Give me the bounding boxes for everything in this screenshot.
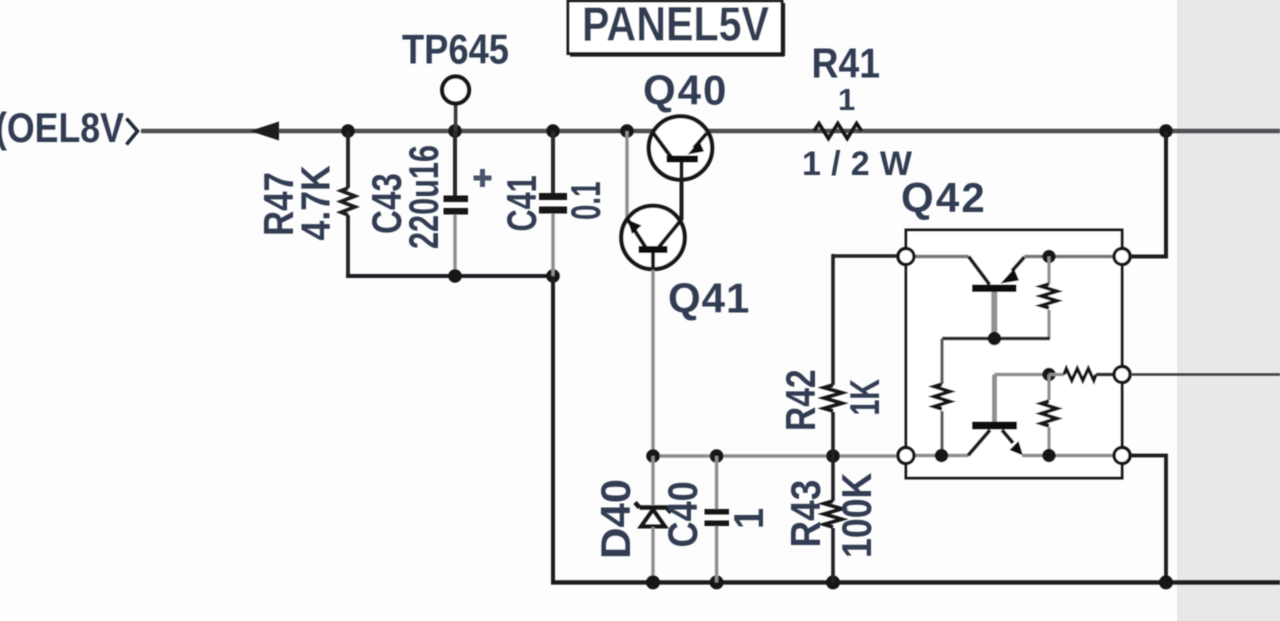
junction D40 bottom (646, 575, 660, 589)
wire Q42 internal bottom-right (1022, 454, 1122, 457)
junction Q42b collector net (935, 449, 949, 463)
wire Q42b base (995, 373, 1050, 376)
resistor R41 (802, 41, 922, 183)
junction C43 bottom (448, 269, 462, 283)
svg-text:R43: R43 (783, 480, 830, 548)
terminal Q42 pin left-bottom (898, 448, 914, 464)
svg-text:C40: C40 (661, 481, 707, 547)
terminal Q42 pin left-top (898, 249, 914, 265)
transistor Q42b (968, 375, 1023, 456)
wire Q41 base to lower net (651, 270, 654, 456)
svg-text:1: 1 (726, 508, 772, 529)
wire Q42 internal top right (1024, 255, 1122, 258)
junction Q42 Rc/Rd (1042, 368, 1056, 382)
junction at C41 top (546, 124, 560, 138)
junction D40 top (646, 449, 660, 463)
resistor Q42 internal Rb (934, 339, 950, 456)
wire bottom of R47/C43/C41 (346, 274, 553, 278)
resistor Q42 internal Ra (1041, 257, 1057, 339)
junction C41 bottom (546, 269, 560, 283)
junction C40 top (710, 449, 724, 463)
junction Q42 Ra top (1042, 250, 1056, 264)
resistor R43 (783, 456, 881, 582)
svg-text:R41: R41 (812, 41, 881, 87)
terminal Q42 pin right-middle (1114, 367, 1130, 383)
transistor Q40 (643, 67, 728, 221)
svg-text:D40: D40 (593, 479, 640, 559)
junction C40 bottom (710, 575, 724, 589)
wire Q42 right-top to rail (1130, 131, 1166, 257)
test point TP645 (402, 26, 509, 131)
capacitor C41 (498, 131, 609, 276)
svg-text:TP645: TP645 (402, 26, 509, 73)
label PANEL5V (568, 0, 784, 56)
wire R42 to Q42 base terminal (833, 254, 908, 258)
wire Q41 emitter feed (625, 131, 628, 220)
resistor Q42 internal Rc (1049, 369, 1122, 381)
svg-text:R42: R42 (779, 369, 825, 431)
svg-text:1: 1 (838, 82, 855, 117)
junction R42/R43 (826, 449, 840, 463)
transistor Q41 (621, 206, 750, 322)
node OEL8V (0, 105, 138, 151)
svg-text:Q42: Q42 (901, 174, 987, 221)
arrow on OEL8V rail (250, 122, 279, 141)
junction at C43 top (448, 124, 462, 138)
wire Q42 right-middle output (1130, 373, 1280, 376)
svg-text:4.7K: 4.7K (293, 165, 339, 241)
svg-text:100K: 100K (834, 473, 880, 558)
wire Q42 internal bottom-left (906, 454, 968, 457)
wire lower net horizontal (653, 454, 908, 457)
junction at Q41 emitter feed (620, 124, 634, 138)
wire bottom rail (551, 580, 1280, 584)
wire Q42 internal top (906, 255, 969, 258)
wire Q42 right-bottom to bottom rail (1130, 456, 1166, 583)
svg-text:(OEL8V: (OEL8V (0, 105, 124, 151)
IC Q42 outline box (901, 174, 1122, 478)
junction Q42a collector (988, 332, 1002, 346)
svg-text:220u16: 220u16 (400, 145, 447, 249)
svg-text:PANEL5V: PANEL5V (582, 0, 769, 51)
junction at R47 top (341, 124, 355, 138)
svg-text:Q41: Q41 (668, 275, 750, 322)
svg-text:1K: 1K (840, 379, 888, 416)
junction at Q42 feed right (1159, 124, 1173, 138)
junction Q42b emitter (1042, 449, 1056, 463)
resistor Q42 internal Rd (1041, 375, 1057, 456)
capacitor C43 (364, 131, 491, 276)
transistor Q42a (969, 257, 1025, 339)
wire Q42 internal middle (942, 337, 1050, 341)
resistor R47 (256, 131, 355, 274)
wire OEL8V rail (141, 129, 1280, 134)
capacitor C40 (661, 456, 773, 582)
terminal Q42 pin right-top (1114, 249, 1130, 265)
diode D40 (593, 456, 671, 582)
resistor R42 (779, 254, 889, 456)
terminal Q42 pin right-bottom (1114, 448, 1130, 464)
shaded panel region (1177, 0, 1280, 621)
svg-text:Q40: Q40 (643, 67, 728, 114)
junction bottom rail right (1159, 575, 1173, 589)
junction R43 bottom (826, 575, 840, 589)
wire left vertical to bottom rail (551, 276, 555, 582)
svg-text:C41: C41 (498, 175, 545, 231)
svg-text:0.1: 0.1 (562, 181, 609, 220)
